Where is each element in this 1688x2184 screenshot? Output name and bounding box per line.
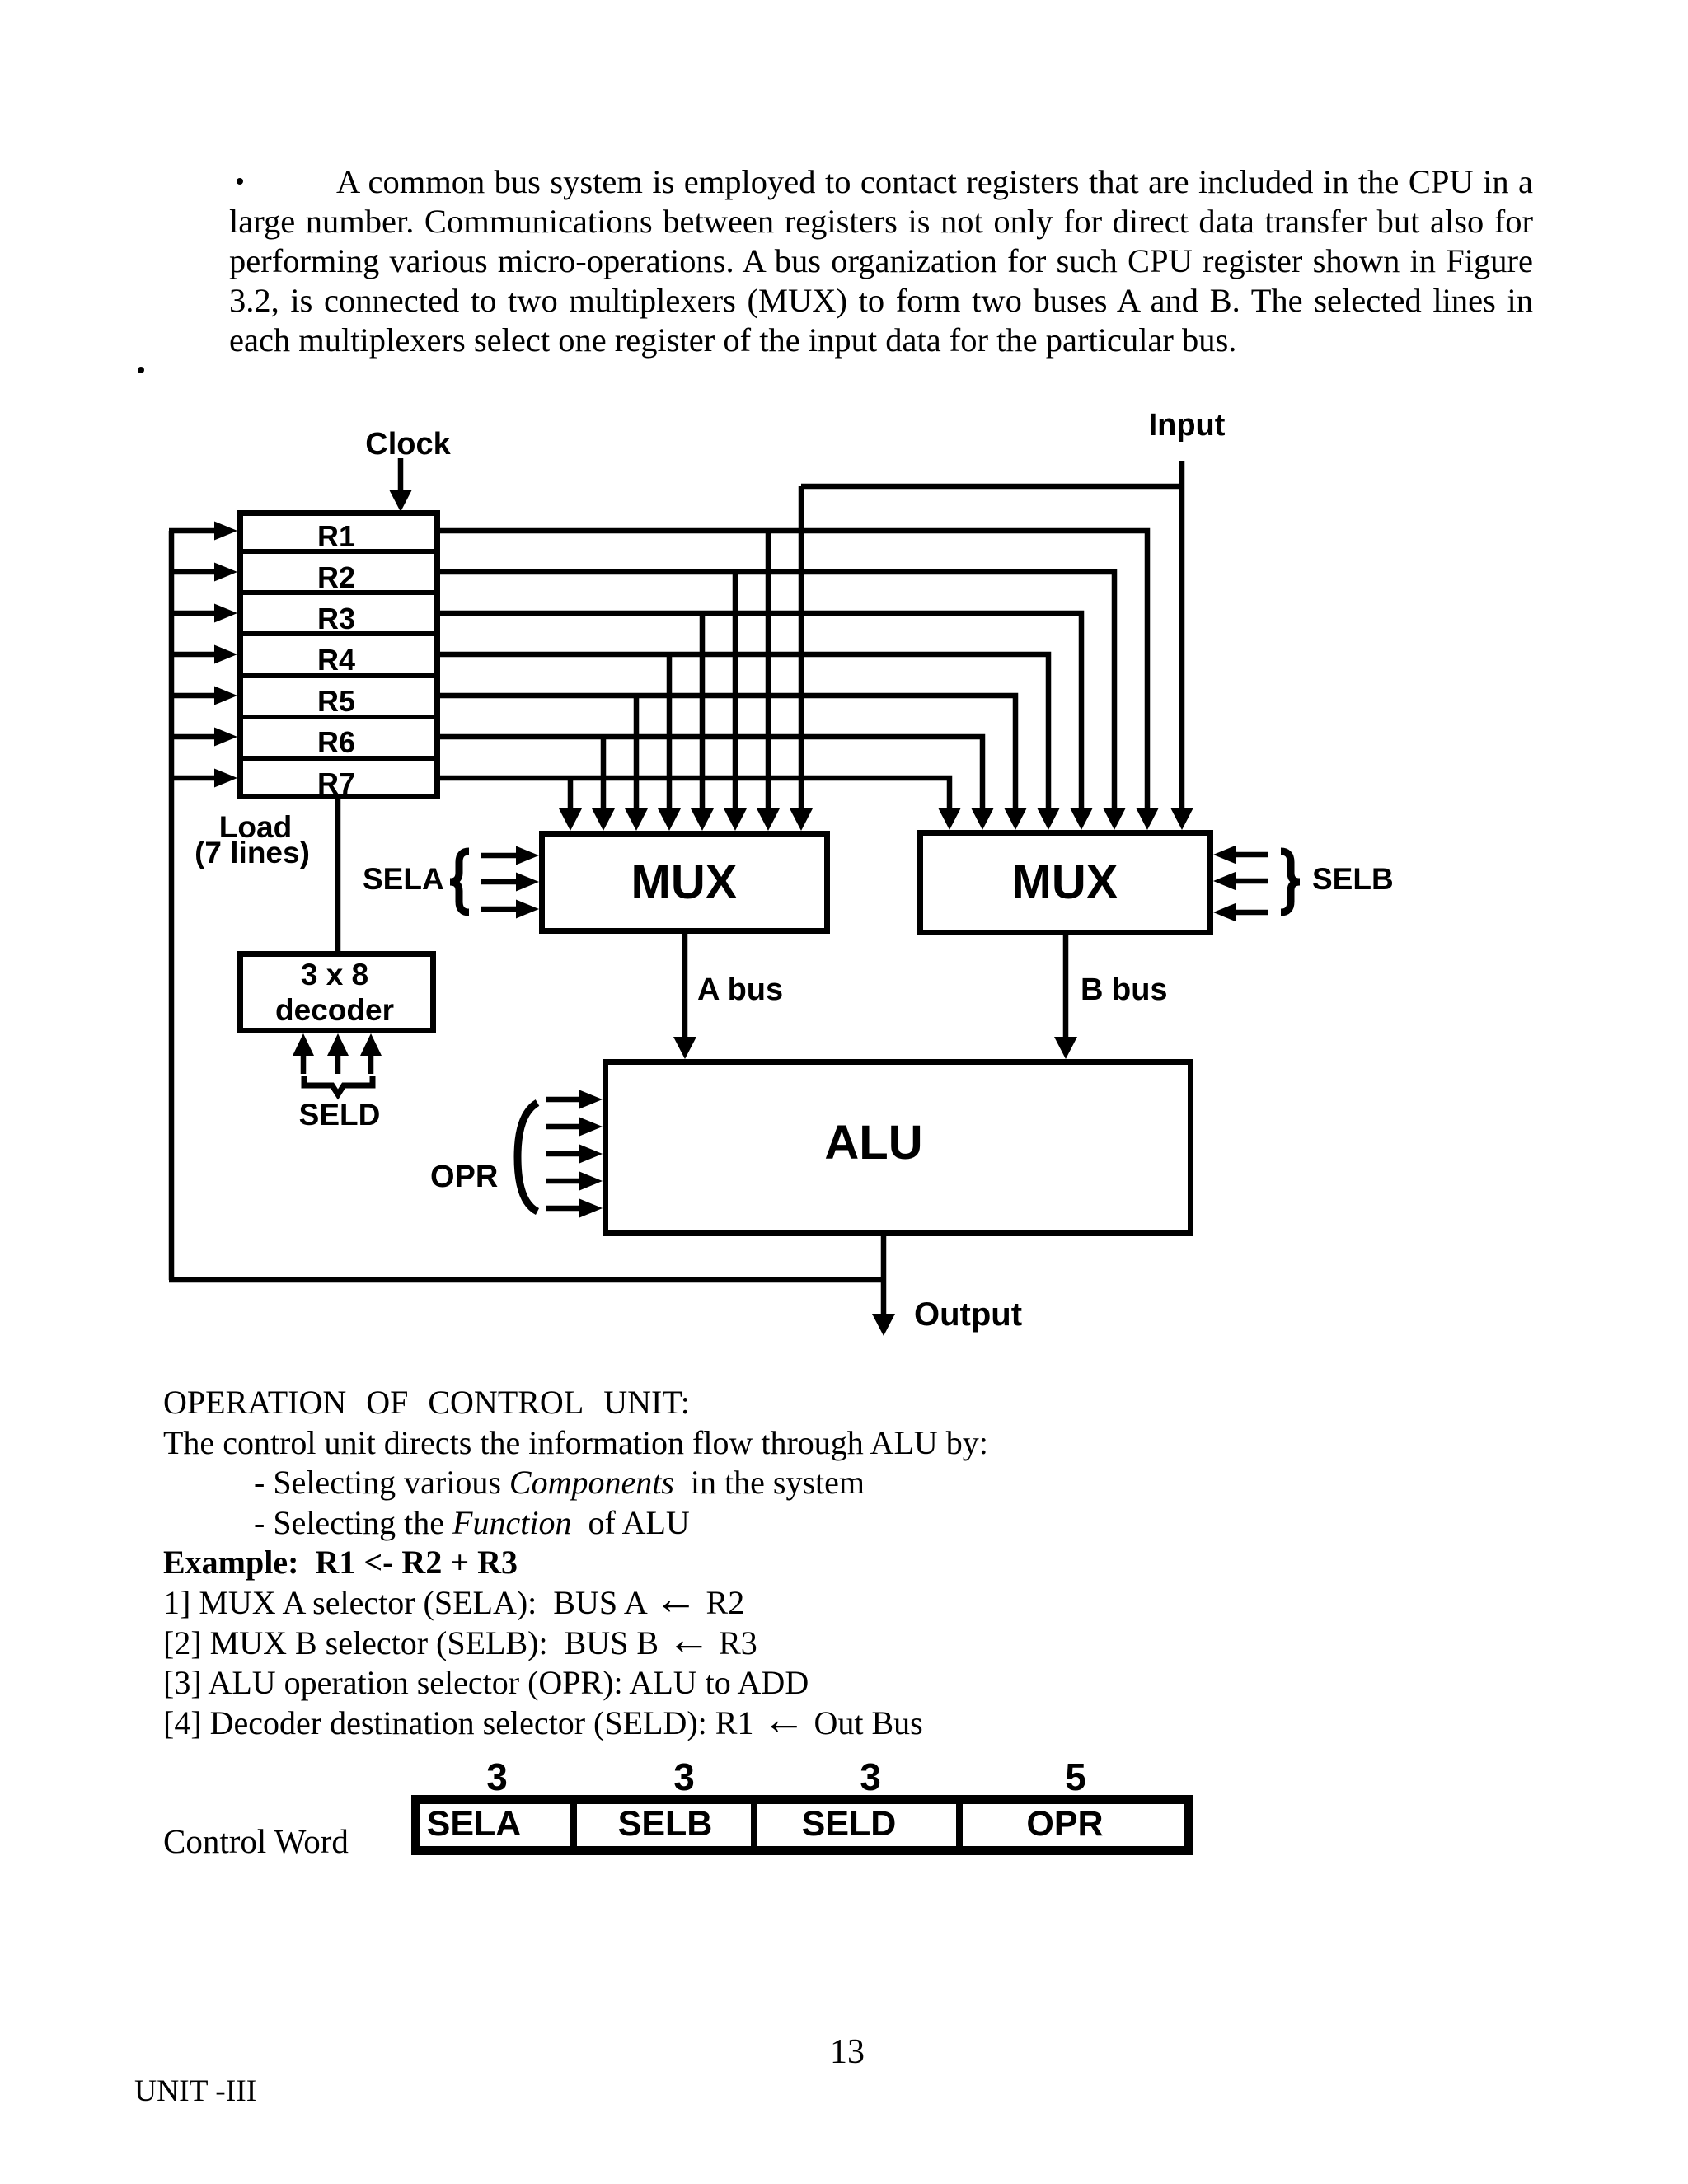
svg-text:OPR: OPR [430,1160,498,1194]
wire: R7 branch to MUX A [568,778,574,808]
arrowhead output [872,1314,895,1336]
arrowhead R5 into MUX A [625,808,648,831]
decoder box [241,954,434,1031]
wire: SELD line 2 [335,1056,341,1074]
wire: SELB select line 3 [1235,910,1268,916]
label Control Word [163,1825,349,1858]
separator R6/R7 [237,756,440,761]
wire: load input stub R6 [169,734,216,740]
svg-text:R4: R4 [317,643,355,677]
svg-text:R5: R5 [317,684,355,718]
wire: R6 output to MUX B [440,737,982,808]
svg-text:SELA: SELA [427,1804,522,1844]
mux B box [921,833,1211,933]
wire: R5 branch to MUX A [634,696,640,808]
svg-text:B bus: B bus [1081,972,1168,1007]
wire: R4 output to MUX B [440,654,1048,808]
separator R4/R5 [237,673,440,678]
arrowhead load input R7 [214,769,237,788]
small stray dot [138,367,144,373]
table divider SELA/SELB [570,1800,577,1850]
arrowhead OPR line 2 [579,1118,603,1137]
svg-text:MUX: MUX [631,855,738,909]
separator R3/R4 [237,631,440,636]
wire: R4 branch to MUX A [667,654,673,808]
wire: load input stub R5 [169,693,216,699]
brace SELB [1281,851,1300,912]
wire: B bus line [1063,935,1069,1037]
arrowhead SELD line 3 [360,1033,382,1056]
wire: SELD line 3 [368,1056,374,1074]
svg-text:3: 3 [860,1755,881,1798]
wire: load input stub R4 [169,652,216,658]
svg-text:MUX: MUX [1012,855,1118,909]
arrowhead R6 into MUX A [592,808,615,831]
arrowhead R2 into MUX A [724,808,747,831]
arrowhead A bus [673,1037,696,1059]
arrowhead SELD line 2 [327,1033,349,1056]
arrowhead SELD line 1 [293,1033,314,1056]
wire: Input horizontal branch [801,484,1182,490]
wire: OPR select line 5 [546,1206,581,1212]
arrowhead Input into MUX A [790,808,813,831]
arrowhead SELB line 2 [1213,872,1236,891]
wire: R3 branch to MUX A [700,613,706,808]
wire: R3 output to MUX B [440,613,1081,808]
arrowhead load input R6 [214,728,237,747]
arrowhead R7 into MUX A [559,808,582,831]
wire: decoder input line from register block [335,799,341,952]
arrowhead SELA line 3 [516,900,539,919]
svg-text:R1: R1 [317,519,355,553]
SELD under-bracket [304,1076,373,1094]
wire: load input stub R7 [169,776,216,781]
svg-text:3 x 8: 3 x 8 [301,958,368,991]
table divider SELD/OPR [956,1800,963,1850]
wire: clock line [398,458,404,490]
separator R5/R6 [237,715,440,719]
svg-text:3: 3 [486,1755,508,1798]
wire: SELA select line 1 [481,853,518,859]
svg-text:Output: Output [914,1296,1022,1333]
arrowhead R7 into MUX B [938,808,961,830]
svg-text:SELD: SELD [299,1098,381,1132]
arrowhead load input R2 [214,563,237,582]
arrowhead B bus [1054,1037,1077,1059]
wire: Input vertical [1179,461,1185,808]
svg-text:R2: R2 [317,560,355,594]
wire: R6 branch to MUX A [601,737,607,808]
arrowhead R3 into MUX B [1070,808,1093,830]
wire: R7 output to MUX B [440,778,949,808]
control word table box [416,1800,1189,1851]
arrowhead SELA line 1 [516,846,539,865]
wire: OPR select line 1 [546,1097,581,1103]
arrowhead SELB line 3 [1213,903,1236,922]
wire: SELD line 1 [301,1056,307,1074]
wire: SELA select line 2 [481,879,518,885]
arrowhead R3 into MUX A [691,808,714,831]
arrowhead clock [389,490,412,512]
arrowhead load input R5 [214,687,237,705]
paragraph bullet dot [237,178,243,185]
svg-text:SELA: SELA [363,862,444,896]
svg-text:R6: R6 [317,725,355,759]
svg-text:(7 lines): (7 lines) [195,836,310,869]
svg-text:OPR: OPR [1026,1804,1103,1844]
wire: ALU output line [881,1236,887,1314]
svg-text:SELB: SELB [618,1804,713,1844]
wire: SELB select line 2 [1235,879,1268,884]
arrowhead SELB line 1 [1213,846,1236,865]
footer unit label [134,2076,256,2107]
arrowhead SELA line 2 [516,873,539,892]
arrowhead load input R1 [214,522,237,541]
wire: R1 output to MUX B [440,531,1147,808]
wire: OPR select line 3 [546,1151,581,1157]
arrowhead OPR line 1 [579,1090,603,1109]
arrowhead Input into MUX B [1170,808,1193,830]
arrowhead R4 into MUX B [1037,808,1060,830]
arrowhead OPR line 4 [579,1172,603,1191]
arrowhead R1 into MUX B [1136,808,1159,830]
arrowhead R2 into MUX B [1103,808,1126,830]
ALU box [606,1062,1191,1234]
wire: R2 output to MUX B [440,572,1114,808]
arrowhead OPR line 5 [579,1199,603,1218]
wire: A bus line [682,934,688,1037]
arrowhead load input R4 [214,645,237,664]
separator R2/R3 [237,590,440,595]
svg-text:Input: Input [1149,408,1226,443]
wire: R1 branch to MUX A [766,531,771,808]
table divider SELB/SELD [751,1800,757,1850]
svg-text:5: 5 [1065,1755,1086,1798]
wire: OPR select line 4 [546,1179,581,1184]
arrowhead R4 into MUX A [658,808,681,831]
arrowhead R1 into MUX A [757,808,780,831]
arrowhead R5 into MUX B [1004,808,1027,830]
wire: output feedback bottom horizontal [169,1277,884,1283]
register file block outline [241,513,438,797]
svg-text:ALU: ALU [824,1116,922,1169]
svg-text:A bus: A bus [697,972,783,1007]
arrowhead R6 into MUX B [971,808,994,830]
svg-text:SELD: SELD [802,1804,897,1844]
lower text block [163,1383,1400,1743]
wire: OPR select line 2 [546,1124,581,1130]
wire: SELA select line 3 [481,907,518,912]
arrowhead OPR line 3 [579,1145,603,1164]
wire: R5 output to MUX B [440,696,1015,808]
svg-text:decoder: decoder [275,993,394,1027]
wire: load input stub R3 [169,611,216,616]
separator R1/R2 [237,549,440,554]
wire: R2 branch to MUX A [733,572,738,808]
mux A box [542,834,828,931]
OPR paren [518,1103,537,1212]
wire: Input drop to MUX A [799,486,804,808]
arrowhead load input R3 [214,604,237,623]
intro paragraph [229,162,1533,360]
wire: output feedback left vertical [169,531,175,1280]
svg-text:R3: R3 [317,602,355,635]
svg-text:Clock: Clock [365,427,451,462]
svg-text:SELB: SELB [1312,862,1394,896]
wire: load input stub R2 [169,569,216,575]
wire: load input stub R1 [169,528,216,534]
svg-text:3: 3 [673,1755,695,1798]
wire: SELB select line 1 [1235,852,1268,858]
brace SELA [450,851,469,912]
page number [830,2035,865,2069]
svg-text:R7: R7 [317,766,355,800]
